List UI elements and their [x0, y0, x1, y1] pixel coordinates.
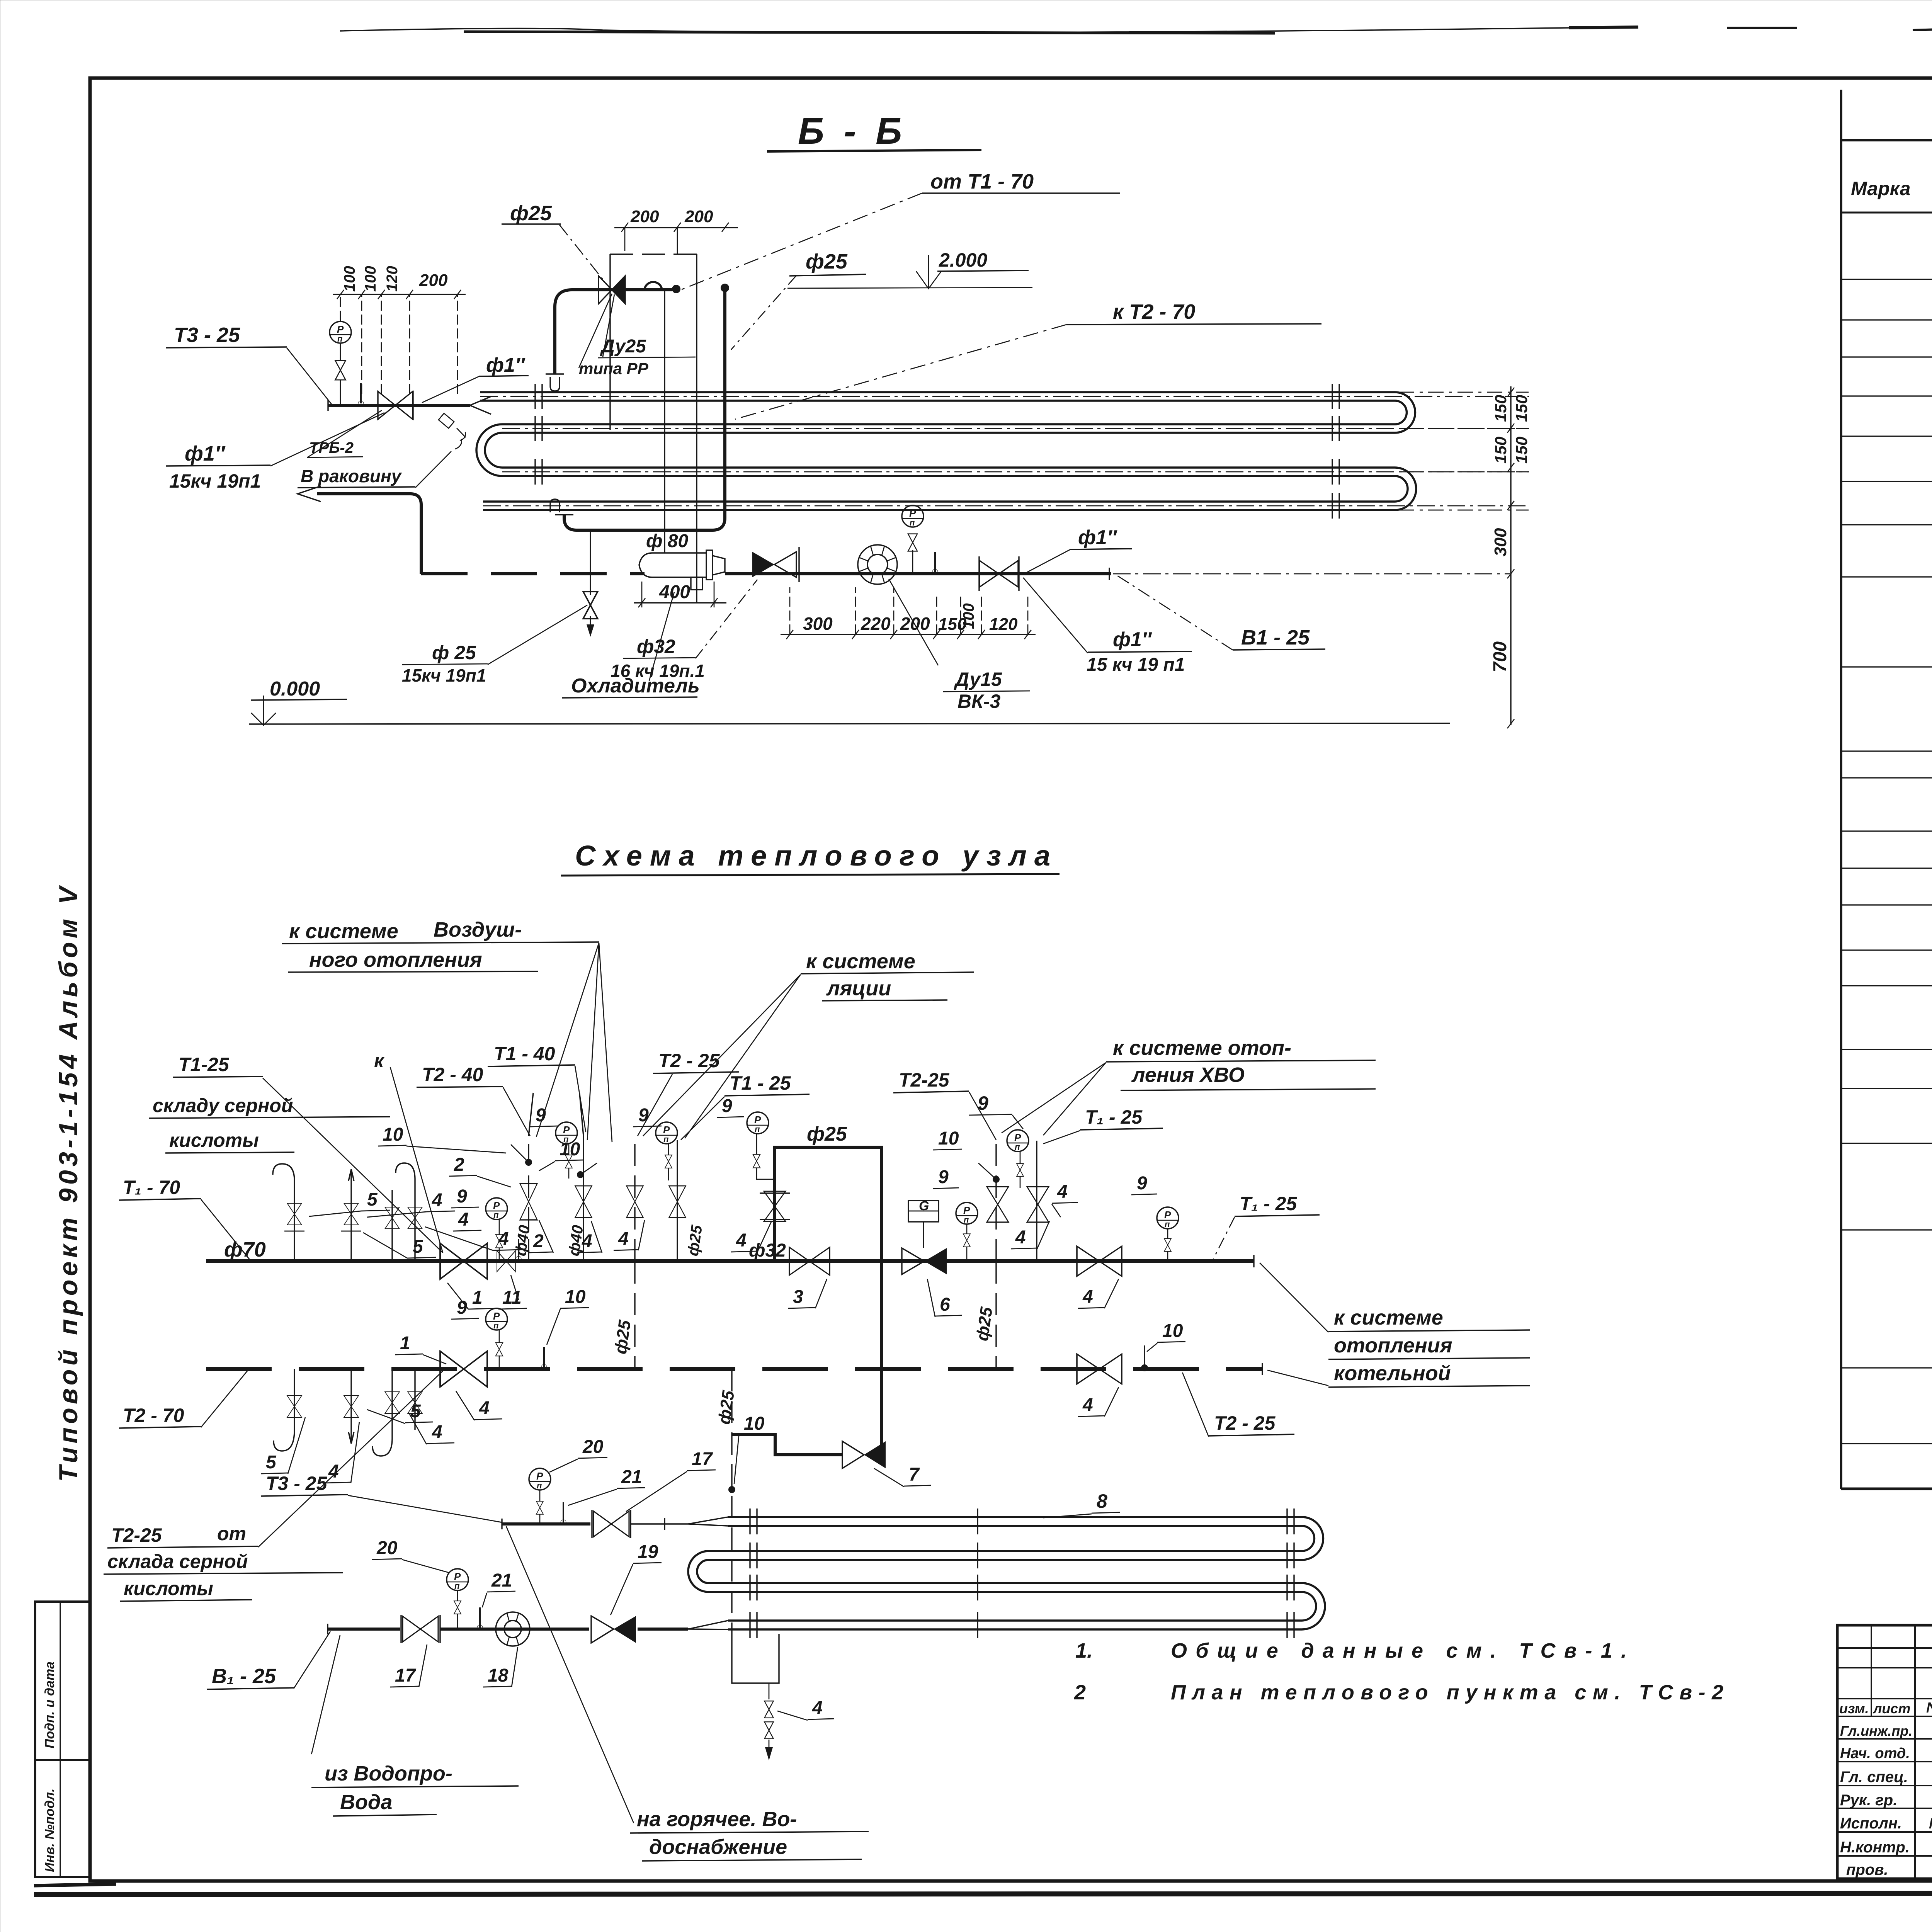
socket onto tube pair1: [550, 377, 560, 391]
tube centerlines: [480, 396, 1529, 506]
svg-text:Т2 - 25: Т2 - 25: [1214, 1412, 1276, 1434]
svg-text:7: 7: [909, 1464, 920, 1485]
coil left U-bend 2-3: [688, 1551, 709, 1592]
svg-text:ф25: ф25: [684, 1224, 706, 1257]
svg-text:10: 10: [383, 1124, 403, 1145]
svg-text:складу серной: складу серной: [153, 1095, 293, 1116]
svg-text:300: 300: [803, 614, 833, 634]
svg-text:20: 20: [582, 1437, 604, 1457]
svg-text:Ду15: Ду15: [954, 668, 1002, 690]
svg-text:Гл. спец.: Гл. спец.: [1840, 1769, 1908, 1786]
pipe V1-25: [328, 1628, 400, 1631]
svg-text:№ докум.: № докум.: [1926, 1700, 1932, 1716]
leader na goryachee: [506, 1526, 634, 1823]
svg-text:1: 1: [472, 1287, 483, 1308]
svg-text:Т1 - 40: Т1 - 40: [494, 1043, 555, 1065]
valve 17 on V1-25: [403, 1616, 438, 1642]
valve 4 on supply right: [1077, 1246, 1122, 1276]
svg-text:Т2 - 40: Т2 - 40: [422, 1064, 483, 1085]
thermometer on return: [541, 1347, 547, 1370]
coil right U-bend 3-4: [1302, 1583, 1325, 1629]
svg-text:10: 10: [1162, 1321, 1183, 1341]
svg-text:ф1″: ф1″: [185, 442, 226, 465]
svg-text:G: G: [919, 1199, 929, 1213]
svg-text:3: 3: [793, 1287, 803, 1307]
svg-text:ф25: ф25: [611, 1319, 634, 1355]
svg-text:ф70: ф70: [224, 1238, 266, 1261]
valve on T2-25 vent: [626, 1186, 643, 1218]
left columns: [1871, 1625, 1872, 1716]
main supply pipe T1-70: [206, 1259, 1254, 1263]
coil flanges: [750, 1509, 1294, 1638]
svg-text:0.000: 0.000: [270, 678, 320, 700]
svg-text:Исполн.: Исполн.: [1840, 1815, 1902, 1832]
svg-text:200: 200: [419, 271, 448, 290]
svg-text:ляции: ляции: [826, 977, 891, 1000]
svg-text:План теплового пункт: План теплового пункта см. ТСв-2: [1171, 1681, 1723, 1704]
valve on T3-25: [378, 391, 413, 419]
heater tube pair 1: [480, 392, 1395, 401]
table grid: [1840, 90, 1842, 1489]
svg-text:Вода: Вода: [340, 1791, 392, 1814]
svg-text:ф25: ф25: [714, 1389, 738, 1425]
leader ot sklada: [258, 1371, 443, 1547]
svg-text:150: 150: [1512, 395, 1531, 422]
thermometer on T3-25: [358, 383, 364, 406]
leaders XVO: [1002, 1063, 1106, 1135]
valve 3: [789, 1247, 830, 1275]
bottom scan edge line: [34, 1893, 1932, 1895]
valve 2 on T2-40: [520, 1184, 537, 1220]
f25 hot water loop: [775, 1147, 881, 1261]
riser T1-40: [583, 1136, 584, 1261]
svg-text:ного отопления: ного отопления: [309, 948, 482, 971]
right U-bend pairs 1-2: [1395, 392, 1415, 433]
lower pipe solid run: [725, 572, 1111, 575]
svg-text:отопления: отопления: [1334, 1334, 1452, 1357]
right dimension chain: [1510, 386, 1511, 725]
svg-text:ВК-3: ВК-3: [957, 690, 1000, 712]
water meter 18: [496, 1612, 530, 1646]
svg-text:ф32: ф32: [637, 636, 675, 657]
svg-text:21: 21: [491, 1570, 512, 1591]
svg-text:Т2 - 70: Т2 - 70: [123, 1405, 184, 1426]
main return pipe T2-70 dashed: [206, 1367, 1262, 1371]
svg-text:150: 150: [1492, 437, 1510, 464]
valve on T1-25 vent: [669, 1186, 685, 1218]
valves on left risers: [287, 1203, 301, 1225]
svg-text:Н.контр.: Н.контр.: [1840, 1839, 1910, 1856]
svg-text:10: 10: [560, 1139, 580, 1160]
coil taper from T3-25: [688, 1517, 728, 1526]
check valve: [752, 552, 774, 577]
pipe T3-25: [502, 1522, 590, 1526]
thermometer 21 on V1-25: [477, 1607, 483, 1630]
svg-text:9: 9: [1137, 1173, 1147, 1194]
svg-text:к системе: к системе: [806, 950, 915, 973]
check valve 6: [902, 1248, 924, 1274]
svg-text:ф1″: ф1″: [1113, 628, 1152, 651]
svg-text:100: 100: [362, 266, 379, 292]
svg-text:4: 4: [736, 1230, 747, 1251]
tee down to valve 7: [880, 1146, 883, 1455]
svg-text:9: 9: [938, 1167, 949, 1187]
svg-text:4: 4: [458, 1209, 469, 1230]
torn paper edge top: [340, 27, 1932, 33]
coil right U-bend 1-2: [1302, 1517, 1323, 1560]
svg-text:Схема теплового узла: Схема теплового узла: [575, 840, 1050, 872]
svg-text:Охладитель: Охладитель: [571, 675, 700, 697]
gauge XVO: [1007, 1130, 1029, 1152]
heater flanges right: [1332, 384, 1339, 519]
svg-text:Т1 - 25: Т1 - 25: [730, 1072, 791, 1094]
svg-text:Т₁ - 25: Т₁ - 25: [1240, 1193, 1297, 1214]
left U-bend pairs 2-3: [476, 424, 502, 476]
svg-text:ф1″: ф1″: [1078, 526, 1117, 549]
thermometer on lower pipe: [932, 552, 938, 575]
coil pair 3: [709, 1583, 1302, 1592]
dimension 400: [634, 602, 726, 603]
svg-text:4: 4: [479, 1398, 490, 1418]
svg-text:Т1-25: Т1-25: [179, 1054, 230, 1075]
svg-text:Инв. №подл.: Инв. №подл.: [43, 1788, 57, 1872]
drain riser dashed: [731, 1369, 732, 1634]
svg-text:на горячее. Во-: на горячее. Во-: [637, 1808, 797, 1831]
svg-text:15 кч 19 п1: 15 кч 19 п1: [1087, 655, 1185, 675]
valve on lower pipe right: [980, 561, 1018, 587]
svg-text:20: 20: [376, 1538, 398, 1558]
svg-text:Подп. и дата: Подп. и дата: [43, 1662, 57, 1748]
gauge on T1-40: [556, 1122, 577, 1144]
heater tube pair 3: [502, 468, 1395, 476]
coil pair 2: [709, 1551, 1302, 1560]
valves XVO: [987, 1187, 1009, 1222]
dimension 200 200: [614, 227, 738, 228]
svg-text:В₁ - 25: В₁ - 25: [212, 1665, 276, 1688]
valve on f25 riser: [764, 1191, 786, 1221]
svg-text:Б - Б: Б - Б: [798, 111, 906, 152]
svg-text:4: 4: [432, 1190, 442, 1211]
gauge on lower pipe: [902, 505, 923, 527]
svg-text:4: 4: [1057, 1182, 1068, 1202]
svg-text:4: 4: [1082, 1287, 1093, 1307]
left lower branches down: [274, 1369, 415, 1456]
svg-text:4: 4: [1015, 1227, 1026, 1248]
svg-text:9: 9: [722, 1096, 732, 1116]
svg-text:9: 9: [536, 1105, 546, 1126]
drain line with valve: [590, 531, 591, 595]
svg-text:ф40: ф40: [512, 1224, 533, 1257]
heater tube pair 4: [483, 502, 1395, 510]
svg-text:10: 10: [565, 1287, 586, 1307]
valve 1 on supply: [440, 1243, 487, 1279]
valve 7 and hot water branch: [732, 1434, 842, 1455]
left rows: [1837, 1648, 1932, 1856]
svg-text:21: 21: [621, 1467, 642, 1487]
svg-text:ф25: ф25: [973, 1306, 996, 1342]
junction dot riser: [721, 284, 729, 292]
heater tube pair 2: [502, 424, 1395, 433]
gauge riser f25 loop start: [747, 1112, 769, 1134]
f25 supply pipe with elbow: [555, 290, 672, 374]
riser T2-40: [528, 1136, 529, 1261]
svg-text:типа РР: типа РР: [579, 359, 649, 378]
svg-text:15кч 19п1: 15кч 19п1: [402, 665, 486, 685]
svg-text:кислоты: кислоты: [124, 1578, 213, 1599]
lower cooled pipe dashed: [421, 572, 645, 575]
svg-text:100: 100: [341, 266, 358, 292]
svg-text:4: 4: [1082, 1395, 1093, 1415]
left branch risers up: [273, 1163, 415, 1261]
thermo dot on T2-40: [525, 1159, 532, 1166]
svg-text:Гл.инж.пр.: Гл.инж.пр.: [1840, 1723, 1912, 1739]
svg-text:ф25: ф25: [510, 202, 552, 225]
svg-text:изм.: изм.: [1839, 1701, 1869, 1716]
svg-text:Т₁ - 70: Т₁ - 70: [123, 1177, 180, 1198]
svg-text:2: 2: [454, 1155, 464, 1175]
svg-text:19: 19: [638, 1542, 658, 1562]
svg-text:Т2-25: Т2-25: [899, 1069, 950, 1091]
svg-text:Т2-25: Т2-25: [111, 1524, 162, 1546]
svg-text:ф25: ф25: [806, 250, 848, 273]
gland dome: [645, 282, 662, 289]
leader ot T1-70: [681, 193, 922, 290]
svg-text:15кч 19п1: 15кч 19п1: [169, 470, 261, 492]
svg-text:Типовой проект 903-1-154 Ал: Типовой проект 903-1-154 Альбом V: [54, 884, 83, 1482]
svg-text:В1 - 25: В1 - 25: [1241, 626, 1310, 649]
thin run to heater: [631, 1523, 688, 1524]
thermometer on supply: [516, 1239, 521, 1262]
svg-text:доснабжение: доснабжение: [649, 1835, 787, 1859]
thermometer on return right: [1141, 1364, 1148, 1371]
lower pipe stub from tube: [298, 486, 321, 502]
svg-text:к системе: к системе: [1334, 1306, 1443, 1329]
svg-text:ф25: ф25: [807, 1123, 847, 1145]
leader f25: [560, 225, 611, 289]
leaders kotelnoy: [1260, 1263, 1328, 1386]
svg-text:17: 17: [692, 1449, 713, 1469]
leaders k skladu: [263, 1067, 443, 1253]
gauge on T3-25: [330, 321, 351, 344]
svg-text:ления ХВО: ления ХВО: [1131, 1063, 1245, 1087]
svg-text:6: 6: [940, 1294, 950, 1315]
svg-text:17: 17: [395, 1665, 417, 1686]
svg-text:4: 4: [432, 1422, 442, 1442]
svg-text:2: 2: [533, 1231, 544, 1252]
svg-text:ф 25: ф 25: [432, 642, 476, 663]
svg-text:к системе отоп-: к системе отоп-: [1113, 1036, 1291, 1060]
valve Du25 RR: [599, 276, 625, 304]
svg-text:9: 9: [638, 1105, 649, 1126]
heater flanges left: [535, 384, 542, 485]
gauge 20 on V1-25: [447, 1569, 468, 1591]
svg-text:700: 700: [1490, 641, 1510, 672]
G-box flow regulator: [908, 1201, 939, 1222]
svg-text:300: 300: [1491, 528, 1510, 556]
svg-text:Нач. отд.: Нач. отд.: [1840, 1745, 1910, 1762]
svg-text:склада серной: склада серной: [107, 1551, 248, 1572]
svg-text:Т2 - 25: Т2 - 25: [658, 1050, 720, 1071]
hot water heater coil pair 1: [728, 1517, 1302, 1526]
svg-text:ф1″: ф1″: [486, 354, 526, 376]
svg-text:10: 10: [938, 1128, 959, 1149]
svg-text:11: 11: [502, 1287, 522, 1308]
cooler f80: [652, 553, 706, 577]
leader iz vodoprovoda: [311, 1635, 340, 1754]
valve 4 on return right: [1077, 1354, 1122, 1384]
coil pair 4: [728, 1621, 1302, 1629]
gauge on T1-25 vent: [656, 1122, 677, 1144]
svg-text:2.000: 2.000: [939, 249, 987, 271]
svg-text:Общие данные см. ТСв-1.: Общие данные см. ТСв-1.: [1171, 1639, 1627, 1662]
svg-text:от Т1 - 70: от Т1 - 70: [930, 170, 1034, 193]
svg-text:200: 200: [900, 614, 930, 634]
check valve 19: [591, 1616, 614, 1643]
regulator enclosure: [610, 253, 697, 255]
svg-text:Марка: Марка: [1851, 178, 1910, 199]
leaders vozdushnoe: [536, 943, 612, 1142]
gauge 20 on T3-25: [529, 1468, 551, 1490]
valve 1 on return: [440, 1351, 487, 1387]
svg-text:120: 120: [989, 615, 1018, 634]
svg-text:Мазолевская: Мазолевская: [1929, 1816, 1932, 1832]
svg-text:120: 120: [384, 266, 401, 292]
svg-text:5: 5: [367, 1189, 378, 1210]
specification table: [1841, 90, 1932, 1489]
svg-text:9: 9: [978, 1092, 988, 1114]
svg-text:5: 5: [266, 1452, 277, 1473]
riser T1-25 vent: [677, 1140, 678, 1261]
svg-text:150: 150: [1492, 395, 1510, 422]
thermometer 21 on T3-25: [561, 1502, 566, 1525]
reducer to heater: [470, 396, 491, 414]
dimension 100 100 120 200: [340, 294, 457, 394]
svg-text:Т₁ - 25: Т₁ - 25: [1085, 1106, 1143, 1128]
dimension row 300 220 200 150 100 120: [781, 634, 1036, 635]
coil taper from V1-25: [688, 1621, 728, 1629]
svg-text:150: 150: [1512, 437, 1531, 464]
valve 11 on supply: [497, 1251, 515, 1272]
svg-text:к Т2 - 70: к Т2 - 70: [1113, 300, 1195, 323]
svg-text:9: 9: [457, 1298, 467, 1318]
junction dot: [672, 285, 680, 293]
svg-text:из Водопро-: из Водопро-: [325, 1762, 452, 1785]
valve 17 on T3-25: [594, 1511, 629, 1537]
svg-text:пров.: пров.: [1846, 1861, 1888, 1878]
XVO riser T1-25: [1036, 1141, 1037, 1261]
drain pocket: [732, 1634, 779, 1683]
XVO riser T2-25 dashed: [995, 1140, 997, 1261]
svg-text:кислоты: кислоты: [169, 1129, 259, 1151]
riser to T2-70 down: [564, 288, 725, 530]
svg-text:10: 10: [744, 1413, 765, 1434]
svg-text:100: 100: [960, 603, 977, 629]
valve on T1-40: [575, 1186, 592, 1218]
svg-text:ф 80: ф 80: [646, 531, 689, 551]
svg-text:5: 5: [413, 1236, 423, 1257]
svg-text:к: к: [374, 1050, 385, 1071]
svg-text:1: 1: [400, 1333, 410, 1354]
svg-text:2: 2: [1074, 1681, 1086, 1704]
drain valve 4: [769, 1683, 770, 1699]
svg-text:18: 18: [488, 1665, 509, 1686]
svg-text:Т3 - 25: Т3 - 25: [266, 1473, 328, 1494]
riser T2-25 vent dashed down to return: [634, 1136, 635, 1261]
svg-text:4: 4: [618, 1229, 629, 1249]
svg-text:8: 8: [1097, 1490, 1107, 1512]
svg-text:Рук. гр.: Рук. гр.: [1840, 1792, 1897, 1809]
svg-text:Воздуш-: Воздуш-: [434, 918, 522, 941]
pipe T3-25 left: [328, 404, 470, 407]
left margin inventory table: [35, 1602, 90, 1877]
svg-text:лист: лист: [1872, 1701, 1910, 1716]
lower pipe centerline continuation: [1113, 573, 1510, 575]
svg-text:котельной: котельной: [1334, 1362, 1451, 1385]
ground line: [249, 723, 1450, 724]
svg-text:1.: 1.: [1075, 1639, 1093, 1662]
svg-text:220: 220: [861, 614, 891, 634]
svg-text:к системе: к системе: [289, 920, 398, 943]
svg-text:Ду25: Ду25: [600, 336, 646, 357]
svg-text:ф32: ф32: [749, 1240, 786, 1261]
svg-text:от: от: [217, 1523, 246, 1544]
right U-bend pairs 3-4: [1395, 468, 1416, 510]
svg-text:200: 200: [684, 207, 713, 226]
svg-text:9: 9: [457, 1186, 467, 1207]
water meter: [858, 545, 897, 584]
svg-text:Т3 - 25: Т3 - 25: [174, 323, 240, 347]
drain fitting to sink: [439, 413, 454, 429]
leaders ventilyacia: [643, 975, 801, 1138]
title block: [1837, 1625, 1932, 1879]
svg-text:200: 200: [630, 207, 659, 226]
svg-text:В раковину: В раковину: [301, 466, 402, 486]
svg-text:4: 4: [812, 1698, 823, 1718]
